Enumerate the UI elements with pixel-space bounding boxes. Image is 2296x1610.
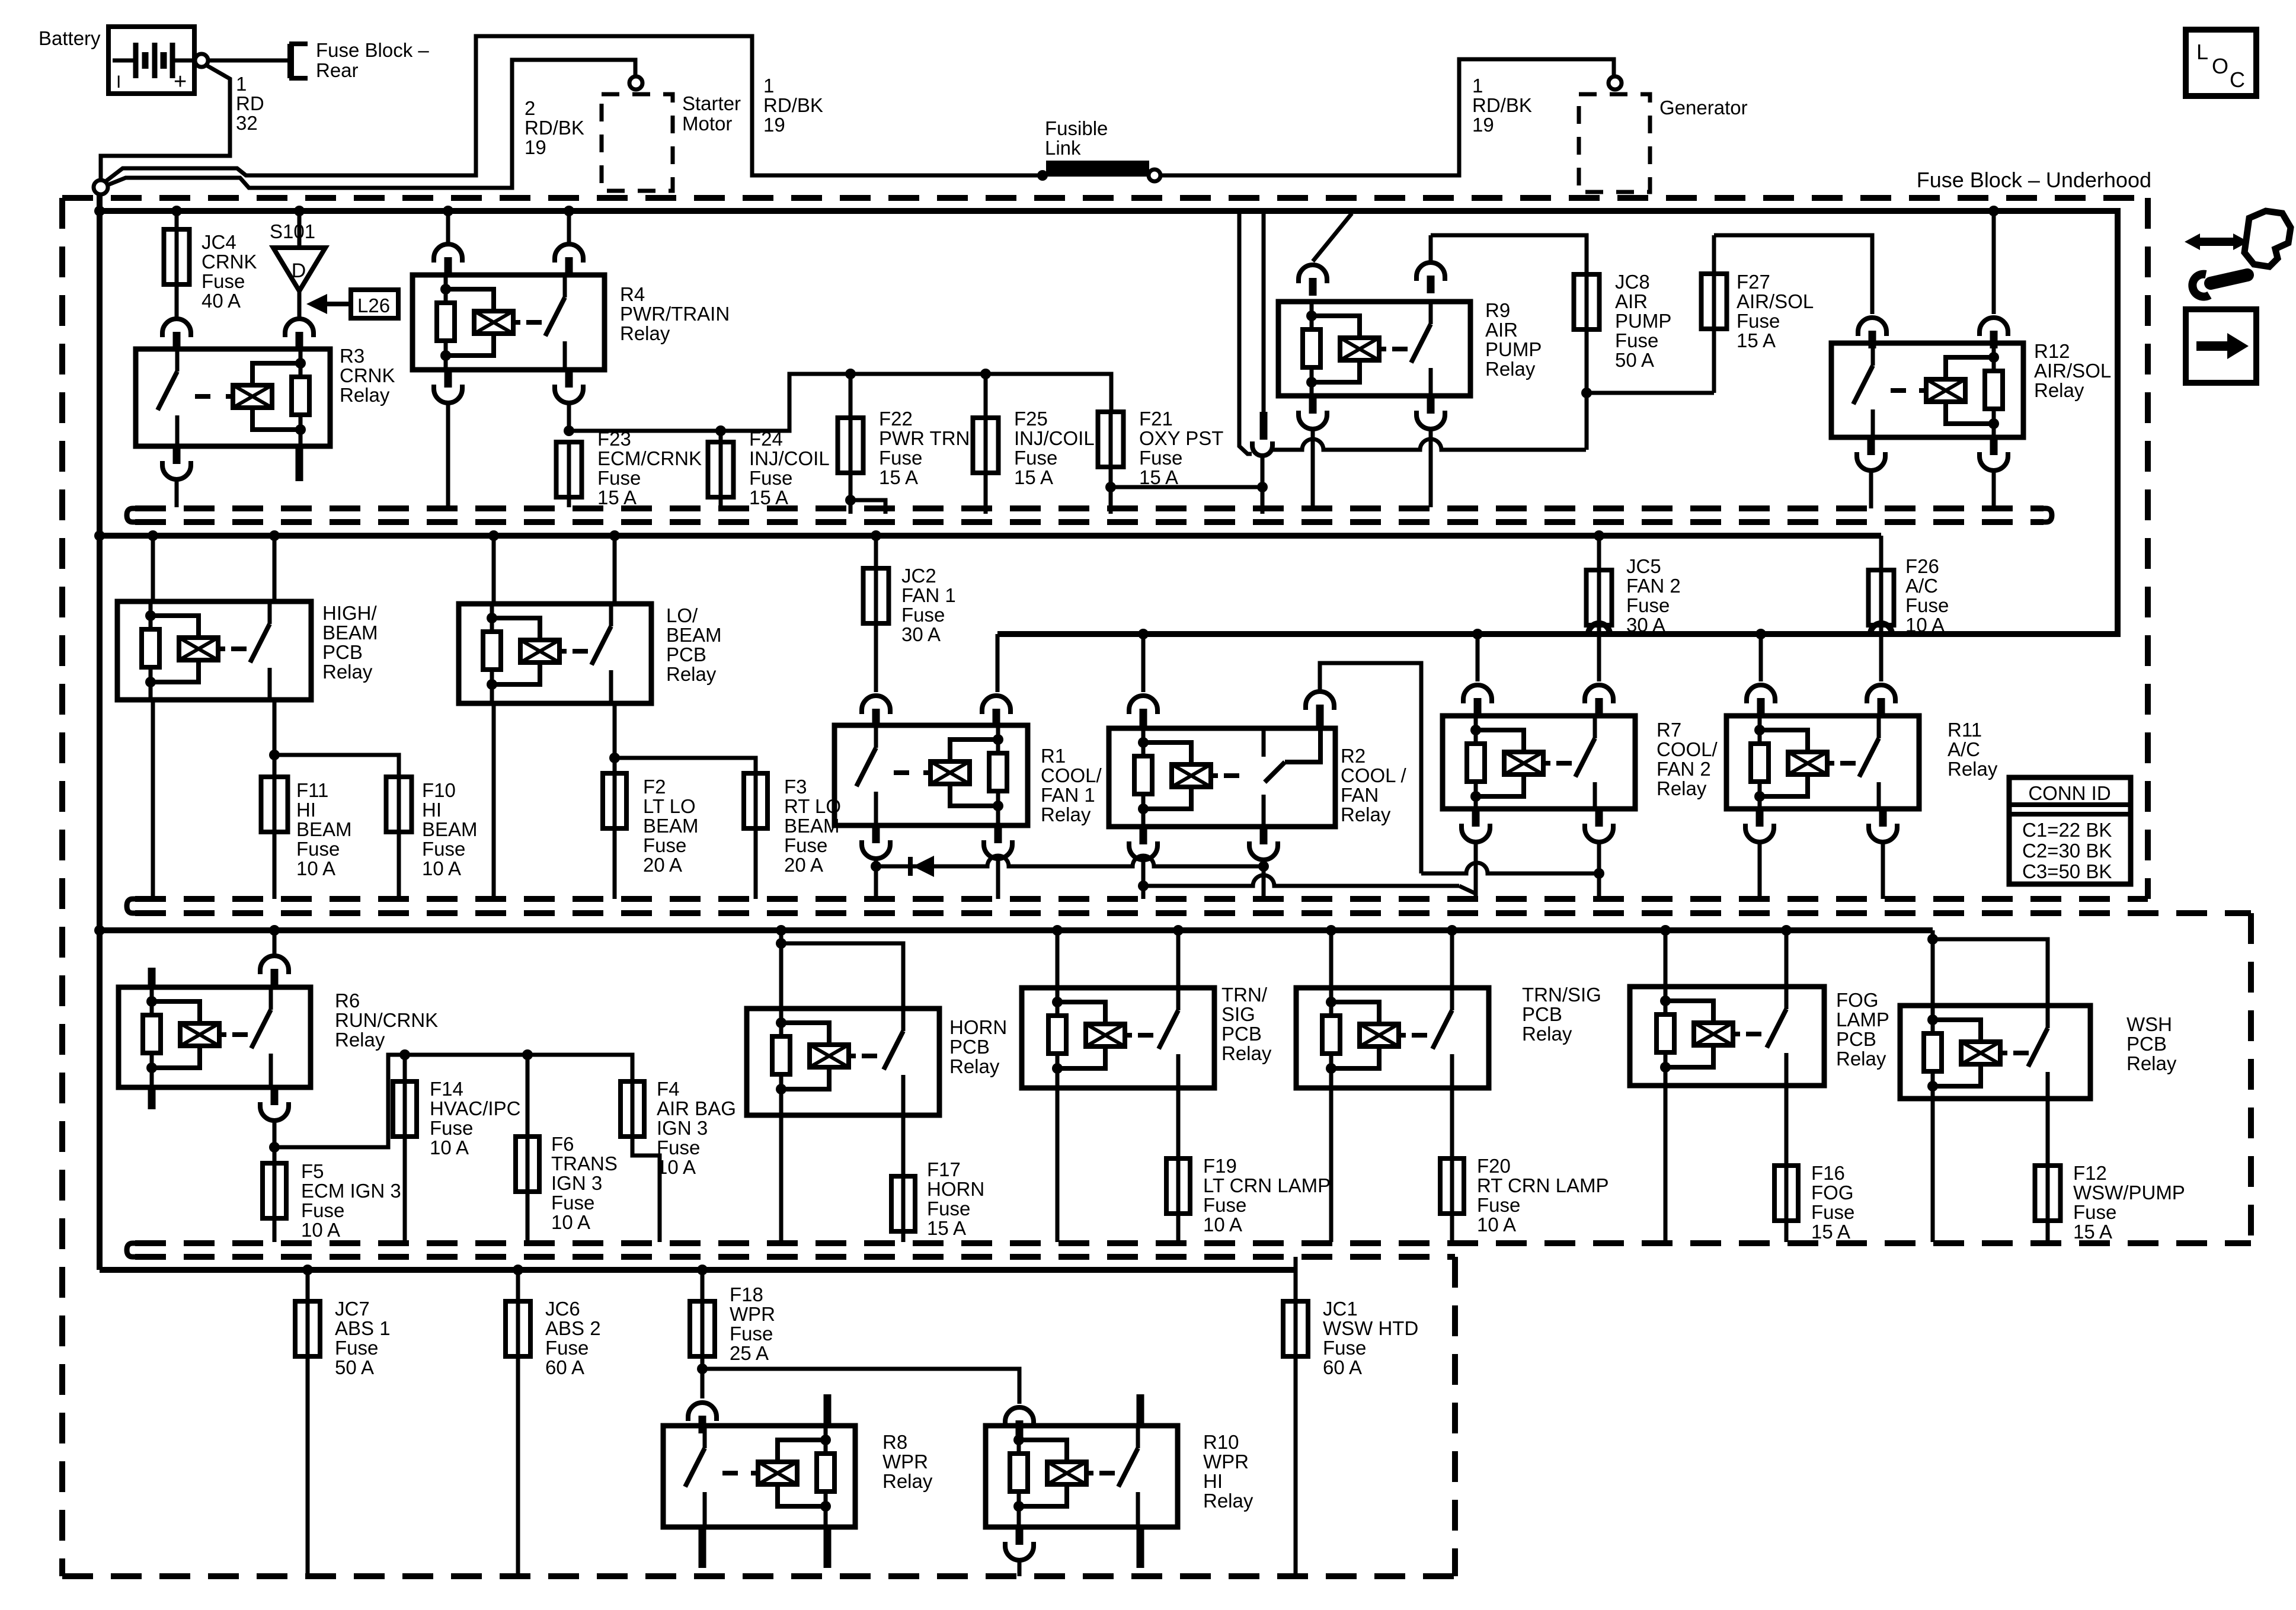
fuse F14: [403, 1055, 407, 1081]
svg-text:Fuse: Fuse: [335, 1337, 378, 1359]
arrow box icon: [2186, 309, 2256, 383]
svg-text:Fuse: Fuse: [1905, 594, 1949, 616]
fuse F26: [1879, 536, 1884, 570]
svg-text:L26: L26: [357, 295, 390, 316]
wire midfeed to R1 coil: [996, 634, 1000, 692]
starter terminal ring: [629, 76, 642, 89]
relay TRN/SIG PCB 1: [1052, 925, 1063, 936]
connector R9 coil feed: [1299, 265, 1327, 283]
svg-text:F20: F20: [1477, 1155, 1511, 1177]
svg-text:INJ/COIL: INJ/COIL: [1014, 427, 1095, 449]
wrench icon: [2211, 275, 2247, 283]
svg-text:50 A: 50 A: [1615, 349, 1654, 371]
svg-text:Relay: Relay: [949, 1055, 1000, 1077]
splice S101: [294, 206, 305, 216]
svg-text:RT CRN LAMP: RT CRN LAMP: [1477, 1174, 1609, 1196]
svg-text:I: I: [116, 72, 121, 92]
relay FOG LAMP PCB: [1660, 925, 1671, 936]
connector R9 lower left: [1309, 396, 1317, 414]
svg-text:Fuse: Fuse: [1477, 1194, 1520, 1216]
svg-text:BEAM: BEAM: [666, 624, 722, 646]
dashed border right lower: [2248, 913, 2254, 1243]
svg-text:C1=22 BK: C1=22 BK: [2022, 819, 2112, 841]
connector R1 coil feed: [982, 696, 1011, 714]
row4 bus: [100, 1267, 1296, 1273]
svg-text:FAN 1: FAN 1: [1041, 784, 1095, 806]
svg-text:Fuse: Fuse: [1626, 594, 1670, 616]
svg-text:1: 1: [1472, 75, 1483, 97]
svg-text:R6: R6: [335, 990, 360, 1012]
fuse F21: [1109, 409, 1113, 469]
svg-text:LT LO: LT LO: [643, 795, 696, 817]
svg-text:D: D: [292, 260, 306, 282]
svg-text:RD/BK: RD/BK: [763, 94, 823, 116]
svg-text:A/C: A/C: [1905, 575, 1938, 597]
wire C2 to JC8/F27 bottoms: [1272, 439, 1586, 450]
connector R11 coil feed: [1747, 685, 1775, 703]
svg-text:Relay: Relay: [1221, 1042, 1272, 1064]
svg-text:CONN ID: CONN ID: [2028, 782, 2110, 804]
relay R3 CRNK: [136, 349, 330, 446]
relay HIGH/BEAM PCB: [148, 530, 158, 541]
svg-text:JC7: JC7: [335, 1298, 370, 1320]
svg-text:15 A: 15 A: [1014, 466, 1053, 488]
svg-text:RD/BK: RD/BK: [525, 117, 584, 139]
svg-text:HVAC/IPC: HVAC/IPC: [430, 1097, 520, 1119]
connector R12 switch feed: [1858, 318, 1886, 336]
fuse JC4: [171, 206, 182, 216]
svg-text:30 A: 30 A: [901, 623, 941, 645]
svg-text:Fuse Block –: Fuse Block –: [316, 39, 429, 61]
connector R12 coil feed: [1980, 318, 2008, 336]
svg-text:INJ/COIL: INJ/COIL: [749, 447, 830, 469]
fuse F16: [1785, 1163, 1789, 1223]
svg-text:F14: F14: [430, 1078, 463, 1100]
svg-text:PWR TRN: PWR TRN: [879, 427, 970, 449]
svg-text:IGN 3: IGN 3: [551, 1172, 602, 1194]
svg-text:ABS 1: ABS 1: [335, 1317, 391, 1339]
connector JC4 to R3: [162, 319, 191, 337]
svg-text:15 A: 15 A: [1811, 1221, 1850, 1243]
svg-text:F16: F16: [1811, 1162, 1845, 1184]
fuse F24: [719, 431, 723, 442]
relay WSH PCB: [1931, 930, 1935, 939]
wire R1 to R2 with diode: [876, 856, 1264, 866]
svg-text:AIR: AIR: [1615, 290, 1648, 312]
connector R7 lower left: [1472, 809, 1480, 827]
wire 2 RD/BK 19 run to starter: [108, 60, 635, 188]
fuse F5: [273, 1161, 277, 1221]
connector R9 switch feed: [1416, 263, 1445, 281]
R8 stub lower left: [699, 1527, 706, 1568]
dashed border left: [59, 198, 65, 1576]
connector R12 lower right: [1990, 437, 1998, 455]
svg-text:LT CRN LAMP: LT CRN LAMP: [1203, 1174, 1331, 1196]
wire R2 coil to R7 coil: [1143, 875, 1459, 886]
svg-text:40 A: 40 A: [202, 290, 241, 312]
svg-text:HI: HI: [1203, 1470, 1223, 1492]
wire to generator: [1160, 59, 1614, 175]
connector R12 lower left: [1868, 437, 1875, 455]
fuse JC2: [871, 530, 881, 541]
svg-text:Relay: Relay: [1522, 1023, 1572, 1045]
svg-text:F21: F21: [1139, 408, 1173, 430]
svg-text:R11: R11: [1948, 719, 1982, 741]
svg-text:10 A: 10 A: [1905, 614, 1945, 636]
fuse F17: [901, 1174, 906, 1234]
wire battery to splice: [101, 65, 230, 180]
connector R8 switch feed: [688, 1403, 717, 1421]
svg-text:F6: F6: [551, 1133, 574, 1155]
svg-text:C3=50 BK: C3=50 BK: [2022, 860, 2112, 882]
wire HIGH/BEAM switch to F11: [273, 700, 277, 755]
connector R10 coil feed: [1005, 1407, 1034, 1426]
svg-text:HORN: HORN: [927, 1178, 984, 1200]
battery B+ box: [108, 27, 194, 94]
svg-text:PWR/TRAIN: PWR/TRAIN: [620, 303, 730, 325]
svg-text:HI: HI: [422, 799, 442, 821]
svg-text:Fuse: Fuse: [597, 467, 641, 489]
svg-text:CRNK: CRNK: [202, 251, 257, 273]
fuse JC8: [1585, 272, 1589, 332]
svg-text:Fuse: Fuse: [301, 1199, 344, 1221]
svg-text:RUN/CRNK: RUN/CRNK: [335, 1009, 438, 1031]
svg-text:PCB: PCB: [666, 644, 706, 665]
row1 bus right wrap to mid feed: [997, 211, 2118, 634]
svg-text:AIR: AIR: [1485, 319, 1518, 341]
relay R11 A/C: [1759, 634, 1763, 681]
dashed border right upper: [2145, 198, 2151, 899]
connector R4 lower left: [445, 370, 452, 388]
connector R2 coil feed: [1129, 696, 1157, 714]
wire 1 RD/BK 19 upper run: [105, 36, 1038, 182]
svg-text:R2: R2: [1341, 745, 1366, 767]
svg-text:R1: R1: [1041, 745, 1066, 767]
svg-text:Fuse: Fuse: [1323, 1337, 1366, 1359]
wire LO/BEAM switch to F2: [613, 703, 617, 758]
svg-text:25 A: 25 A: [730, 1342, 769, 1364]
svg-text:PUMP: PUMP: [1615, 310, 1671, 332]
svg-text:10 A: 10 A: [422, 857, 461, 879]
relay R10: [986, 1426, 1178, 1527]
svg-text:1: 1: [236, 73, 247, 95]
svg-text:ECM/CRNK: ECM/CRNK: [597, 447, 702, 469]
connector R11 switch feed: [1867, 685, 1895, 703]
svg-text:Fuse: Fuse: [730, 1323, 773, 1345]
connector R4 lower right: [565, 370, 573, 388]
svg-text:Fuse: Fuse: [749, 467, 792, 489]
connector R2 lower right: [1260, 827, 1268, 844]
svg-text:Link: Link: [1045, 137, 1081, 159]
R3 lower right stub: [296, 446, 303, 481]
connector S101 to R3: [285, 319, 314, 337]
R10 stub lower right: [1137, 1527, 1144, 1568]
svg-text:Relay: Relay: [322, 661, 373, 683]
connector R7 switch feed: [1585, 685, 1613, 703]
connector R7 coil feed: [1463, 685, 1492, 703]
svg-text:Fuse: Fuse: [1737, 310, 1780, 332]
svg-text:15 A: 15 A: [2073, 1221, 2112, 1243]
wire R2 aux to R7 switch: [1421, 863, 1599, 873]
svg-text:Relay: Relay: [1203, 1490, 1253, 1512]
svg-text:F23: F23: [597, 428, 631, 450]
fuse F22: [849, 374, 853, 418]
svg-text:Relay: Relay: [335, 1029, 385, 1051]
svg-text:Fuse: Fuse: [551, 1192, 594, 1214]
relay R12 AIR/SOL: [1831, 343, 2023, 437]
connector R6 lower right: [271, 1087, 279, 1105]
svg-text:WPR: WPR: [882, 1451, 928, 1473]
svg-text:32: 32: [236, 112, 258, 134]
svg-text:10 A: 10 A: [551, 1211, 590, 1233]
R2 switch pivot and blade: [1262, 728, 1266, 757]
generator terminal ring: [1609, 76, 1622, 89]
svg-text:S101: S101: [270, 220, 315, 242]
wire HORN coil down: [779, 1115, 784, 1242]
svg-text:FAN 1: FAN 1: [901, 584, 956, 606]
svg-text:WSW HTD: WSW HTD: [1323, 1317, 1418, 1339]
svg-text:C2=30 BK: C2=30 BK: [2022, 840, 2112, 862]
svg-text:F11: F11: [296, 779, 328, 801]
row3 bus: [100, 927, 1933, 933]
svg-text:Fuse: Fuse: [1014, 447, 1057, 469]
svg-text:19: 19: [763, 114, 785, 136]
svg-text:Fuse: Fuse: [2073, 1201, 2116, 1223]
svg-text:R3: R3: [340, 345, 364, 367]
R2 internal link: [1285, 729, 1320, 762]
svg-text:Relay: Relay: [2034, 379, 2084, 401]
svg-text:RD/BK: RD/BK: [1472, 94, 1532, 116]
separator row2/row3: [135, 896, 2148, 902]
svg-text:Fusible: Fusible: [1045, 117, 1108, 139]
svg-text:JC4: JC4: [202, 231, 236, 253]
svg-text:WSH: WSH: [2126, 1013, 2172, 1035]
fuse JC1: [1294, 1257, 1298, 1301]
svg-text:C: C: [2230, 68, 2245, 92]
svg-text:ECM IGN 3: ECM IGN 3: [301, 1180, 401, 1202]
connector R1 lower left: [872, 825, 880, 843]
svg-text:F12: F12: [2073, 1162, 2107, 1184]
svg-text:BEAM: BEAM: [643, 815, 699, 837]
diagonal bus to R9 coil: [1313, 213, 1352, 261]
svg-text:Fuse Block – Underhood: Fuse Block – Underhood: [1917, 168, 2151, 192]
svg-text:JC1: JC1: [1323, 1298, 1358, 1320]
svg-text:Fuse: Fuse: [1139, 447, 1182, 469]
svg-text:10 A: 10 A: [1203, 1214, 1242, 1235]
svg-text:BEAM: BEAM: [784, 815, 840, 837]
svg-text:FAN 2: FAN 2: [1657, 758, 1711, 780]
svg-text:15 A: 15 A: [927, 1217, 966, 1239]
svg-text:ABS 2: ABS 2: [545, 1317, 601, 1339]
starter motor dashed box: [602, 94, 673, 191]
fuse F6: [526, 1055, 530, 1137]
connector R6 switch feed: [260, 956, 289, 974]
wire HORN switch to F17: [901, 1115, 906, 1182]
svg-text:2: 2: [525, 97, 535, 119]
battery positive terminal: [195, 54, 208, 67]
midfeed line row2: [1138, 629, 1149, 639]
svg-text:10 A: 10 A: [430, 1137, 469, 1158]
svg-text:BEAM: BEAM: [322, 622, 378, 644]
fuse F12: [2046, 1163, 2050, 1223]
svg-text:10 A: 10 A: [1477, 1214, 1516, 1235]
svg-text:Fuse: Fuse: [422, 838, 465, 860]
relay R2 COOL/FAN: [1141, 634, 1146, 692]
svg-text:WSW/PUMP: WSW/PUMP: [2073, 1182, 2185, 1204]
svg-text:Relay: Relay: [1948, 758, 1998, 780]
connector R10 lower left: [1016, 1527, 1024, 1545]
svg-text:Relay: Relay: [1341, 804, 1391, 825]
wire bus to R12 coil: [1992, 213, 1996, 314]
svg-text:AIR/SOL: AIR/SOL: [1737, 290, 1814, 312]
connector fuse block rear: [292, 44, 308, 78]
svg-text:Fuse: Fuse: [1811, 1201, 1854, 1223]
svg-text:Fuse: Fuse: [1615, 329, 1658, 351]
dashed border bottom: [62, 1573, 1455, 1579]
svg-text:JC2: JC2: [901, 565, 936, 587]
relay R9 AIR PUMP: [1278, 302, 1470, 396]
relay LO/BEAM PCB: [488, 530, 499, 541]
svg-text:F10: F10: [422, 779, 456, 801]
svg-text:COOL/: COOL/: [1041, 764, 1102, 786]
svg-text:Relay: Relay: [882, 1470, 933, 1492]
relay HORN PCB: [776, 925, 786, 936]
fusible link right ring: [1149, 169, 1160, 181]
svg-text:Motor: Motor: [682, 113, 732, 135]
svg-text:60 A: 60 A: [1323, 1356, 1362, 1378]
svg-text:FOG: FOG: [1811, 1182, 1854, 1204]
svg-text:HI: HI: [296, 799, 316, 821]
svg-text:Fuse: Fuse: [296, 838, 340, 860]
svg-text:15 A: 15 A: [1737, 329, 1776, 351]
svg-text:AIR/SOL: AIR/SOL: [2034, 360, 2111, 382]
svg-text:COOL/: COOL/: [1657, 738, 1718, 760]
svg-text:Starter: Starter: [682, 92, 741, 114]
svg-text:TRN/: TRN/: [1221, 984, 1268, 1006]
LOC box icon: [2186, 30, 2256, 96]
fuse F25: [984, 374, 988, 418]
svg-text:FAN: FAN: [1341, 784, 1379, 806]
fuse F20: [1450, 1156, 1454, 1216]
R4 feeds: [443, 206, 453, 216]
R6 stub lower left: [148, 1087, 156, 1109]
connector R1 switch feed: [862, 696, 890, 714]
svg-text:JC5: JC5: [1626, 555, 1661, 577]
relay TRN/SIG PCB 2: [1326, 925, 1336, 936]
svg-text:Relay: Relay: [666, 663, 717, 685]
svg-text:COOL /: COOL /: [1341, 764, 1406, 786]
svg-text:F18: F18: [730, 1283, 763, 1305]
svg-text:PCB: PCB: [2126, 1033, 2167, 1055]
svg-text:Relay: Relay: [340, 384, 390, 406]
fusible link: [1046, 161, 1149, 177]
svg-text:TRANS: TRANS: [551, 1153, 618, 1174]
fuse F19: [1176, 1156, 1181, 1216]
svg-text:R4: R4: [620, 283, 645, 305]
connector R7 lower right: [1595, 809, 1603, 827]
svg-text:15 A: 15 A: [1139, 466, 1178, 488]
R6 stub upper left: [148, 968, 156, 987]
svg-text:15 A: 15 A: [879, 466, 918, 488]
wire HIGH/BEAM coil to connector row: [151, 700, 155, 899]
feed line to F23 F24: [564, 425, 574, 436]
wire R9 switch to JC8: [1431, 235, 1587, 274]
feed F18 to R8 R10: [697, 1363, 708, 1374]
svg-text:Relay: Relay: [620, 322, 670, 344]
svg-text:20 A: 20 A: [643, 854, 682, 876]
svg-text:F25: F25: [1014, 408, 1048, 430]
C2 connector cluster: [1239, 211, 1252, 454]
wire F27 top to R12 coil: [1714, 235, 1872, 314]
svg-text:Fuse: Fuse: [643, 834, 686, 856]
svg-text:LO/: LO/: [666, 604, 698, 626]
svg-text:O: O: [2212, 54, 2228, 78]
svg-text:BEAM: BEAM: [422, 818, 478, 840]
svg-text:R12: R12: [2034, 340, 2070, 362]
connector R4 switch feed: [555, 244, 583, 263]
svg-text:10 A: 10 A: [657, 1156, 696, 1178]
battery symbol: [113, 59, 134, 63]
svg-text:15 A: 15 A: [597, 486, 637, 508]
svg-text:10 A: 10 A: [301, 1219, 340, 1241]
svg-text:PCB: PCB: [322, 641, 363, 663]
svg-text:JC6: JC6: [545, 1298, 580, 1320]
svg-text:Fuse: Fuse: [901, 604, 945, 626]
separator row3/row4: [135, 1240, 2251, 1246]
svg-text:OXY PST: OXY PST: [1139, 427, 1223, 449]
svg-text:R9: R9: [1485, 299, 1510, 321]
svg-text:Relay: Relay: [1657, 777, 1707, 799]
svg-text:F3: F3: [784, 776, 807, 798]
fuse JC5: [1594, 530, 1604, 541]
fuse JC7: [302, 1265, 313, 1275]
svg-text:F4: F4: [657, 1078, 680, 1100]
connector R2 switch feed: [1306, 692, 1334, 710]
L26 callout: [351, 290, 398, 318]
svg-text:R7: R7: [1657, 719, 1681, 741]
svg-text:F27: F27: [1737, 271, 1770, 293]
car icon with arrows: [2244, 211, 2291, 267]
svg-text:BEAM: BEAM: [296, 818, 352, 840]
junction fusible link left: [1037, 170, 1048, 181]
svg-text:PCB: PCB: [1836, 1028, 1876, 1050]
R8 stub upper right: [824, 1394, 832, 1426]
svg-text:Fuse: Fuse: [784, 834, 827, 856]
svg-text:R8: R8: [882, 1431, 907, 1453]
svg-text:PCB: PCB: [1522, 1003, 1562, 1025]
row2 bus: [100, 533, 1881, 539]
dashed border top: [62, 195, 2148, 201]
wire JC8 to F27: [1587, 391, 1714, 395]
svg-text:Fuse: Fuse: [430, 1117, 473, 1139]
svg-text:50 A: 50 A: [335, 1356, 374, 1378]
svg-text:+: +: [174, 69, 187, 94]
separator row1/row2: [135, 505, 2044, 511]
wire LO/BEAM coil down: [492, 703, 496, 899]
svg-text:Generator: Generator: [1659, 97, 1748, 119]
svg-text:Relay: Relay: [1041, 804, 1091, 825]
fuse JC6: [513, 1265, 523, 1275]
svg-text:15 A: 15 A: [749, 486, 788, 508]
svg-text:F5: F5: [301, 1160, 324, 1182]
svg-text:10 A: 10 A: [296, 857, 335, 879]
svg-text:PCB: PCB: [949, 1036, 990, 1058]
connector R4 coil feed: [434, 244, 462, 263]
relay R8: [663, 1426, 855, 1527]
svg-text:JC8: JC8: [1615, 271, 1650, 293]
svg-text:AIR BAG: AIR BAG: [657, 1097, 736, 1119]
svg-text:F2: F2: [643, 776, 666, 798]
